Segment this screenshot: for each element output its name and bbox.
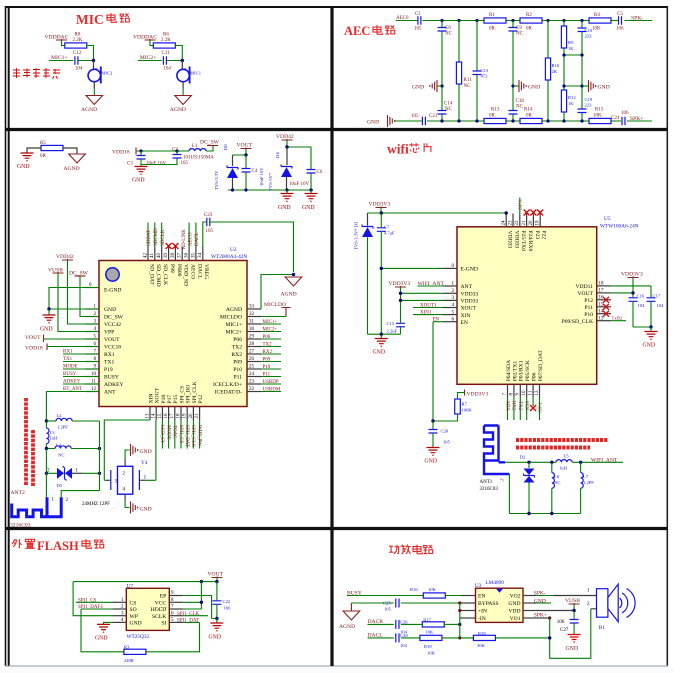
power VDD3V3 (R7): [464, 390, 466, 396]
wire net AECO: [188, 223, 190, 247]
svg-text:EN: EN: [461, 320, 468, 326]
svg-text:AGND: AGND: [64, 166, 80, 172]
U2 pin 41 SD_CMD: [154, 247, 156, 261]
wire: [182, 82, 184, 88]
svg-text:E-GND: E-GND: [461, 267, 478, 273]
svg-text:SPI1_DAT: SPI1_DAT: [177, 619, 199, 624]
U3 pin +IN: [462, 610, 476, 612]
crystal load plate left: [110, 470, 112, 490]
U7 pin 9 EP: [169, 595, 183, 597]
svg-text:C6: C6: [445, 26, 451, 31]
U2 pin 39 P99: [168, 247, 170, 261]
title external FLASH circuit: [12, 539, 104, 553]
svg-text:VDD18: VDD18: [25, 346, 43, 352]
svg-text:C1: C1: [415, 12, 421, 17]
ground AGND: [285, 277, 302, 286]
wire E-GND: [381, 267, 443, 269]
no-connect X pin20: [530, 210, 536, 216]
U3 pin GND: [523, 602, 536, 604]
svg-text:AGND: AGND: [281, 292, 297, 298]
svg-text:P10: P10: [263, 365, 271, 370]
wire VOUT pin17: [611, 278, 633, 298]
svg-text:GND: GND: [412, 85, 424, 91]
svg-text:WT2000A3-42N: WT2000A3-42N: [211, 254, 247, 260]
svg-text:100K: 100K: [462, 408, 473, 413]
svg-text:SPI_DO: SPI_DO: [186, 385, 192, 404]
net TxD2 pin13: [611, 320, 626, 322]
panel divider horizontal 2: [5, 527, 667, 530]
wire BT columns: [46, 421, 99, 497]
panel divider vertical: [330, 7, 333, 666]
svg-text:SCK: SCK: [524, 401, 529, 411]
wire: [93, 82, 95, 88]
U5 pin 3 VDD33: [443, 299, 457, 301]
ground GND: [380, 334, 382, 338]
svg-text:P04/SDA: P04/SDA: [506, 360, 512, 381]
svg-text:13: 13: [599, 316, 605, 321]
svg-text:14: 14: [599, 309, 605, 314]
ground GND: [97, 624, 110, 632]
no-connect X pin38: [172, 243, 178, 249]
svg-text:P10: P10: [233, 367, 242, 373]
U2 pin 20 SPI_CLK: [192, 407, 194, 421]
svg-text:10uF 16V: 10uF 16V: [289, 182, 310, 187]
svg-text:U2: U2: [230, 247, 237, 253]
U2 pin 32 MICLDO: [247, 316, 261, 318]
svg-text:VREG: VREG: [203, 264, 209, 279]
U5 pin 11 P06: [532, 384, 534, 397]
capacitor C4: [245, 155, 247, 168]
svg-text:30: 30: [249, 327, 255, 332]
no-connect X pin19: [537, 210, 543, 216]
svg-text:XIN: XIN: [461, 313, 471, 319]
U5 pin 7 P04/SDA: [507, 384, 509, 397]
wire: [150, 40, 153, 46]
wire net LED_SY: [161, 420, 163, 449]
TVS diode D4: [286, 147, 288, 165]
svg-text:23: 23: [249, 380, 255, 385]
wire net SCK: [526, 397, 528, 420]
svg-text:SDCLK: SDCLK: [161, 229, 166, 246]
wire input node vertical: [460, 603, 462, 638]
svg-text:P15: P15: [173, 395, 179, 404]
svg-text:C23: C23: [204, 213, 213, 218]
svg-text:D8: D8: [223, 144, 228, 150]
svg-text:36: 36: [185, 253, 190, 259]
junction + ground GND right: [580, 84, 583, 87]
svg-text:VDD42: VDD42: [56, 254, 74, 260]
U2 pin 38 PB00: [174, 247, 176, 261]
svg-text:14: 14: [152, 413, 157, 419]
svg-text:TxD2: TxD2: [518, 200, 523, 211]
svg-text:USBDP: USBDP: [263, 380, 279, 385]
wire VOUT node: [233, 149, 247, 156]
svg-text:L3: L3: [50, 430, 56, 435]
U5 pin 15 P11: [597, 306, 611, 308]
wire VDD11 pin18: [611, 286, 651, 297]
svg-text:VDD33: VDD33: [461, 299, 479, 305]
svg-text:20: 20: [529, 220, 534, 226]
svg-text:0R: 0R: [489, 27, 496, 32]
svg-text:P07/SD_DAT: P07/SD_DAT: [538, 350, 544, 382]
U2 pin 12 ANT: [85, 391, 99, 393]
svg-text:VDD33: VDD33: [507, 231, 513, 249]
wire pin33 to AGND junction: [261, 275, 294, 310]
svg-text:105: 105: [384, 607, 392, 612]
svg-text:41: 41: [150, 253, 155, 259]
svg-text:R8: R8: [75, 33, 81, 38]
wire column R9/R12: [563, 21, 565, 122]
svg-text:1.2PF: 1.2PF: [57, 425, 68, 430]
svg-text:VOUT: VOUT: [208, 572, 224, 578]
U5 pin 19 P22: [539, 214, 541, 227]
svg-text:XOUT: XOUT: [155, 387, 161, 403]
U2 pin 29 P06: [247, 338, 261, 340]
svg-text:17: 17: [599, 289, 605, 294]
U7 pin 3 WP: [112, 615, 126, 617]
svg-text:TX2: TX2: [263, 343, 273, 348]
svg-text:TVS-3.3V: TVS-3.3V: [214, 170, 219, 190]
wire gnd row: [368, 333, 401, 335]
svg-text:104: 104: [638, 303, 646, 308]
svg-text:R14: R14: [524, 108, 533, 113]
svg-text:SI: SI: [161, 621, 166, 627]
U7 pin 4 GND: [112, 621, 126, 623]
svg-text:L5: L5: [564, 453, 570, 458]
U7 pin 5 SI: [169, 621, 183, 623]
junction + ground GND left: [440, 84, 443, 87]
U2 pin 37 VDD_SD: [181, 247, 183, 261]
svg-text:2.2K: 2.2K: [73, 38, 83, 43]
wire ground rail of power: [228, 189, 313, 191]
svg-text:19: 19: [183, 413, 188, 419]
svg-text:C9: C9: [516, 26, 522, 31]
svg-text:MIC2+: MIC2+: [225, 330, 242, 336]
svg-text:C28: C28: [400, 633, 408, 638]
svg-text:R6: R6: [163, 33, 169, 38]
svg-text:10K: 10K: [427, 651, 436, 656]
svg-text:105: 105: [181, 161, 189, 166]
U3 pin VDD: [523, 610, 536, 612]
svg-text:R12: R12: [568, 95, 576, 100]
wire antenna ground rail: [509, 474, 580, 514]
crystal circuit: XIN wire: [104, 420, 150, 480]
svg-text:NC: NC: [58, 453, 64, 458]
svg-text:PB00: PB00: [176, 264, 182, 277]
svg-text:TX2: TX2: [232, 345, 242, 351]
svg-text:37: 37: [178, 253, 183, 259]
E-GND pad circle: [106, 268, 119, 281]
svg-text:29: 29: [249, 335, 255, 340]
svg-text:105: 105: [411, 114, 419, 119]
ground GND: [21, 153, 34, 161]
svg-text:TxD2: TxD2: [612, 316, 623, 321]
wire BT_ANT down to matching: [45, 392, 47, 422]
U5 pin 24 VDD33: [505, 214, 507, 227]
U5 pin 1 ANT: [443, 285, 457, 287]
svg-text:ANT: ANT: [461, 284, 473, 290]
svg-text:WP: WP: [130, 614, 138, 620]
svg-text:3216C03: 3216C03: [10, 523, 31, 529]
svg-text:RX2: RX2: [263, 350, 273, 355]
svg-text:C19: C19: [585, 97, 593, 102]
U2 pin 15 P18: [161, 407, 163, 421]
svg-text:VDD_SD: VDD_SD: [183, 264, 189, 286]
svg-text:VOUT: VOUT: [25, 335, 41, 341]
U5 pin 4 XOUT: [443, 307, 457, 309]
svg-text:NC: NC: [516, 32, 524, 37]
wire WP tie to VOUT rail: [73, 582, 217, 616]
wire net USBDM: [261, 391, 281, 393]
svg-text:+: +: [95, 65, 98, 70]
svg-text:TX1: TX1: [104, 360, 114, 366]
U5 pin 18 VDD11: [597, 285, 611, 287]
U2 pin 28 TX2: [247, 346, 261, 348]
title AEC circuit: [344, 24, 395, 38]
svg-text:Y4: Y4: [141, 460, 148, 466]
svg-text:R2: R2: [526, 13, 532, 18]
wire top rail: [396, 20, 652, 22]
svg-text:AGND: AGND: [81, 107, 97, 113]
svg-text:32: 32: [249, 312, 255, 317]
U7 pin 6 SCLK: [169, 615, 183, 617]
U2 pin 0 E-GND stub: [85, 287, 99, 289]
svg-text:P12: P12: [584, 298, 593, 304]
svg-text:ICECLK/D+: ICECLK/D+: [213, 382, 242, 388]
svg-text:C24: C24: [611, 116, 620, 121]
svg-text:C16: C16: [637, 294, 645, 299]
svg-text:472: 472: [481, 74, 489, 79]
U2 pin 8 TX1: [85, 361, 99, 363]
wire: [62, 40, 65, 46]
microphone MIC1: [181, 61, 183, 70]
wire XOUT to crystal: [146, 420, 156, 480]
U2 pin 13 XIN: [149, 407, 151, 421]
U2 pin 5 VOUT: [85, 338, 99, 340]
U7 pin 1 CS: [112, 601, 126, 603]
wire net P09: [261, 361, 281, 363]
ground GND: [427, 448, 440, 456]
svg-text:SPI_CS: SPI_CS: [179, 386, 185, 404]
svg-text:C14: C14: [444, 102, 453, 107]
wire net P11: [261, 376, 281, 378]
wire net WIFI_PW: [199, 420, 201, 449]
U2 pin 22 ICEDAT/D-: [247, 391, 261, 393]
svg-text:GND: GND: [598, 85, 610, 91]
svg-text:3216C03: 3216C03: [480, 487, 499, 492]
wire net SDCMD: [154, 223, 156, 247]
svg-text:P03/RX1: P03/RX1: [519, 360, 525, 381]
svg-text:SDA: SDA: [504, 401, 509, 411]
svg-text:SPI_CLK: SPI_CLK: [192, 381, 198, 403]
svg-text:2.2K: 2.2K: [161, 38, 171, 43]
svg-text:R9: R9: [568, 40, 574, 45]
svg-text:U5: U5: [604, 216, 611, 222]
U2 pin 19 SPI_DO: [186, 407, 188, 421]
svg-text:C20: C20: [441, 429, 449, 434]
wire VDD42 to pin3: [68, 260, 100, 324]
svg-text:*1: *1: [500, 478, 504, 483]
svg-text:TOAC: TOAC: [172, 425, 177, 439]
wire net SPI1_CLK: [192, 420, 194, 449]
svg-text:104: 104: [163, 67, 171, 72]
svg-text:B1: B1: [599, 625, 606, 631]
svg-text:39: 39: [164, 253, 169, 259]
U2 pin 4 VPP: [85, 331, 99, 333]
U5 pin 10 P05/SCK: [526, 384, 528, 397]
ground GND: [48, 309, 50, 315]
svg-text:105: 105: [206, 229, 214, 234]
svg-text:P25/TX0: P25/TX0: [520, 231, 526, 252]
svg-text:USBDM: USBDM: [263, 388, 281, 393]
svg-text:DC_SW: DC_SW: [200, 140, 220, 146]
svg-text:18: 18: [599, 282, 605, 287]
svg-text:R1: R1: [489, 13, 495, 18]
U2 pin 9 P19: [85, 368, 99, 370]
svg-text:CS: CS: [130, 601, 137, 607]
wire column C13: [476, 21, 478, 122]
svg-text:RX2: RX2: [511, 401, 516, 411]
svg-text:VO2: VO2: [510, 594, 521, 600]
U2 pin 16 P17: [168, 407, 170, 421]
svg-text:DACL: DACL: [195, 232, 200, 246]
wire DAT-I loop to R3: [81, 609, 124, 652]
svg-text:C4: C4: [252, 169, 258, 174]
wire C23 to AGND: [203, 222, 294, 272]
svg-text:D2: D2: [520, 454, 526, 459]
U5 pin 0 E-GND: [443, 267, 457, 269]
junction: [181, 59, 184, 62]
U2 pin 18 SPI_CS: [180, 407, 182, 421]
svg-text:20: 20: [189, 413, 194, 419]
U5 pin 12 P07/SD_DAT: [539, 384, 541, 397]
svg-text:C27: C27: [560, 628, 569, 633]
svg-text:VDD3V3: VDD3V3: [467, 391, 489, 397]
svg-text:16: 16: [599, 296, 605, 301]
svg-text:GND: GND: [278, 205, 291, 211]
svg-text:12: 12: [535, 390, 540, 396]
svg-text:AGND: AGND: [226, 307, 242, 313]
svg-text:R4: R4: [594, 13, 600, 18]
svg-text:MIC2: MIC2: [101, 70, 113, 75]
red vertical note text: [26, 398, 33, 486]
svg-text:VDD3V3: VDD3V3: [621, 272, 643, 278]
svg-text:P06: P06: [532, 372, 538, 381]
wire column C10/C19: [581, 21, 583, 122]
svg-text:LED_SY: LED_SY: [159, 425, 164, 444]
U2 pin 31 MIC1+: [247, 323, 261, 325]
svg-text:19: 19: [536, 220, 541, 226]
svg-text:R19: R19: [424, 644, 432, 649]
svg-text:106: 106: [224, 606, 232, 611]
svg-text:ADKEY: ADKEY: [104, 382, 124, 388]
svg-text:XOUT: XOUT: [461, 306, 477, 312]
svg-text:P09/SD_CLK: P09/SD_CLK: [562, 319, 593, 325]
svg-text:105: 105: [443, 440, 451, 445]
svg-text:R7: R7: [462, 402, 468, 407]
svg-text:GND: GND: [209, 635, 222, 641]
svg-text:GND: GND: [373, 350, 386, 356]
svg-text:GND: GND: [40, 327, 53, 333]
wire net TOAC: [174, 420, 176, 449]
svg-text:AECO: AECO: [190, 264, 196, 279]
svg-text:DC_SW: DC_SW: [104, 315, 124, 321]
svg-text:P19: P19: [104, 367, 113, 373]
svg-text:wifi: wifi: [387, 142, 409, 157]
junction: [92, 59, 95, 62]
svg-text:RD-LINK: RD-LINK: [182, 229, 187, 249]
U5 pin 2 VDD33: [443, 292, 457, 294]
svg-text:GND: GND: [425, 459, 438, 465]
svg-text:SPI1_CS: SPI1_CS: [178, 425, 183, 444]
svg-text:1uH: 1uH: [559, 465, 568, 470]
svg-text:23: 23: [508, 220, 513, 226]
svg-text:ICEDAT/D-: ICEDAT/D-: [215, 390, 242, 396]
svg-text:VUSB: VUSB: [565, 598, 580, 604]
svg-text:C6: C6: [317, 170, 323, 175]
svg-text:P23: P23: [534, 231, 540, 240]
svg-text:SD_CMD: SD_CMD: [155, 264, 161, 287]
wire net SDA: [507, 397, 509, 420]
svg-text:223: 223: [585, 34, 593, 39]
svg-text:240R: 240R: [124, 658, 135, 663]
svg-text:+: +: [184, 65, 187, 70]
U3 pin VO2: [523, 595, 536, 597]
svg-text:-IN: -IN: [478, 616, 486, 622]
wire gnd row right: [633, 326, 651, 328]
svg-text:D4: D4: [275, 152, 280, 158]
svg-text:10K: 10K: [592, 27, 601, 32]
wire GND pin4: [104, 622, 113, 624]
wire net RX2: [261, 353, 281, 355]
svg-text:0R: 0R: [40, 154, 47, 159]
net TxD2 (pin22 top): [519, 198, 521, 214]
svg-text:D5: D5: [57, 483, 63, 488]
TVS diode D8: [232, 155, 234, 166]
svg-text:VCC42: VCC42: [104, 322, 121, 328]
U2 pin 27 RX2: [247, 353, 261, 355]
U2 pin 35 DACL: [195, 247, 197, 261]
TVS diode D3: [367, 213, 369, 226]
svg-text:VDD11: VDD11: [575, 284, 593, 290]
wire net TX2: [261, 346, 281, 348]
svg-text:24: 24: [249, 372, 255, 377]
svg-text:XIN: XIN: [148, 394, 154, 404]
wire net TX2: [519, 397, 521, 420]
ground GND under C6: [309, 188, 312, 191]
svg-text:AGND: AGND: [339, 624, 355, 630]
wire cross links R9/C10: [564, 55, 582, 86]
svg-text:VPP: VPP: [104, 330, 114, 336]
microphone MIC2: [93, 61, 95, 70]
svg-text:35: 35: [191, 253, 196, 259]
crystal load plate right: [138, 470, 140, 490]
wire C2 bottom link: [141, 159, 177, 165]
svg-text:VOUT: VOUT: [577, 291, 593, 297]
svg-text:24MHZ 12PF: 24MHZ 12PF: [82, 502, 110, 507]
U3 pin VO1: [523, 617, 536, 619]
wire: [78, 46, 93, 61]
svg-text:0R: 0R: [526, 114, 533, 119]
svg-text:P09: P09: [233, 360, 242, 366]
svg-text:SPI1_DAT: SPI1_DAT: [184, 425, 189, 447]
wire bottom rail: [395, 120, 653, 122]
svg-text:AECO: AECO: [188, 232, 193, 246]
svg-text:P22: P22: [541, 231, 547, 240]
U3 pin BYPASS: [462, 602, 476, 604]
wire VDD33 rail: [368, 208, 507, 214]
svg-text:C5: C5: [617, 12, 623, 17]
